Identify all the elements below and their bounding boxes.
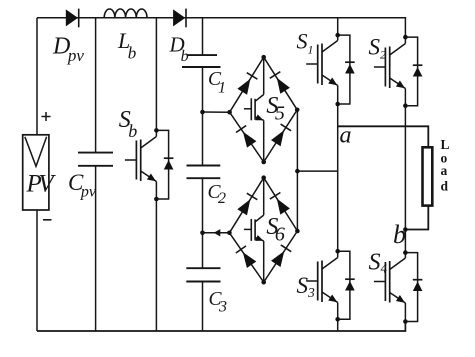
transistor S2 — [374, 35, 423, 108]
diode S5 upper-left — [237, 73, 257, 95]
transistor S1 — [306, 33, 355, 107]
wire S6 center top — [263, 178, 265, 215]
node midpoint of bidirectional switches — [295, 169, 300, 174]
wire Sb branch upper — [155, 18, 157, 131]
svg-text:Dpv: Dpv — [52, 34, 84, 66]
svg-text:C2: C2 — [208, 182, 227, 207]
wire S1 branch from top rail — [337, 18, 339, 35]
diode S5 upper-right — [270, 72, 290, 94]
capacitor C2 — [187, 166, 221, 179]
wire node a to load top — [338, 126, 429, 147]
wire bottom rail — [37, 322, 405, 332]
svg-text:S6: S6 — [266, 214, 285, 246]
svg-text:S2: S2 — [369, 35, 387, 62]
wire S6 center bottom — [263, 241, 265, 282]
transistor Sb — [125, 128, 173, 201]
diode S6 lower-left — [236, 246, 256, 268]
wire Sb branch lower — [155, 199, 157, 331]
transistor S5 IGBT — [244, 95, 264, 121]
node S5 vertices — [227, 55, 299, 164]
minus terminal mark — [43, 219, 52, 221]
wire S5 right vertex to S6 right vertex — [296, 110, 298, 231]
load resistor — [423, 137, 450, 206]
node S6 vertices — [227, 175, 300, 284]
wire top rail — [37, 18, 405, 37]
svg-text:a: a — [340, 122, 352, 148]
wire S1-S3 leg node a vertical — [337, 104, 339, 251]
diode S6 upper-left — [237, 193, 257, 215]
transistor S3 — [306, 249, 355, 322]
svg-text:S1: S1 — [297, 28, 314, 56]
svg-text:d: d — [441, 179, 449, 194]
wire Cpv branch upper — [95, 18, 97, 153]
svg-text:a: a — [441, 163, 448, 178]
transistor S4 — [374, 250, 423, 324]
wire S2-S4 leg node b vertical — [404, 106, 406, 253]
wire load bottom to node b — [405, 206, 428, 230]
wire Cpv branch lower — [95, 166, 97, 331]
wire C3 to bottom rail — [202, 282, 204, 332]
wire C2-C3 junction to S6 left vertex with left arrow — [203, 229, 230, 236]
svg-text:S3: S3 — [297, 273, 316, 300]
node C2-C3 junction — [200, 231, 205, 236]
wire C1 to C2 — [202, 67, 204, 166]
diode S6 lower-right — [271, 245, 291, 267]
diode S5 lower-left — [236, 126, 256, 148]
capacitor C3 — [186, 268, 220, 281]
svg-text:S4: S4 — [369, 250, 388, 276]
capacitor C1 — [182, 55, 221, 67]
capacitor Cpv — [78, 153, 113, 166]
diode Db — [173, 9, 186, 28]
svg-text:Sb: Sb — [119, 107, 138, 141]
wire S3 to bottom rail — [337, 319, 339, 331]
PV source — [23, 135, 57, 210]
wire S5 center top — [263, 57, 265, 94]
node b junction — [403, 227, 408, 232]
wire capacitor chain above C1 — [202, 18, 204, 55]
wire midpoint junction to S1-S3 leg — [297, 170, 337, 172]
inductor Lb — [104, 9, 147, 18]
svg-text:C3: C3 — [209, 289, 228, 316]
svg-text:S5: S5 — [266, 93, 285, 125]
bidirectional switch S5 bridge frame — [230, 57, 298, 162]
diode S6 upper-right — [270, 193, 290, 215]
svg-text:PV: PV — [26, 171, 57, 198]
transistor S6 IGBT — [244, 215, 264, 241]
wire S5 center bottom — [263, 120, 265, 162]
diode Dpv — [66, 9, 79, 28]
bidirectional switch S6 bridge frame — [229, 178, 297, 283]
svg-text:Db: Db — [169, 33, 189, 66]
wire left rail upper (PV branch) — [36, 18, 38, 135]
diode S5 lower-right — [271, 124, 291, 146]
wire C1-C2 junction to S5 left vertex — [203, 111, 230, 113]
svg-text:b: b — [393, 220, 406, 249]
svg-text:Lb: Lb — [117, 28, 136, 63]
wire left rail lower — [36, 210, 38, 331]
wire C2 to C3 — [202, 178, 204, 268]
plus terminal mark — [42, 112, 51, 121]
svg-text:C1: C1 — [208, 69, 226, 96]
svg-text:Cpv: Cpv — [68, 170, 97, 201]
node C1-C2 junction — [200, 110, 205, 115]
